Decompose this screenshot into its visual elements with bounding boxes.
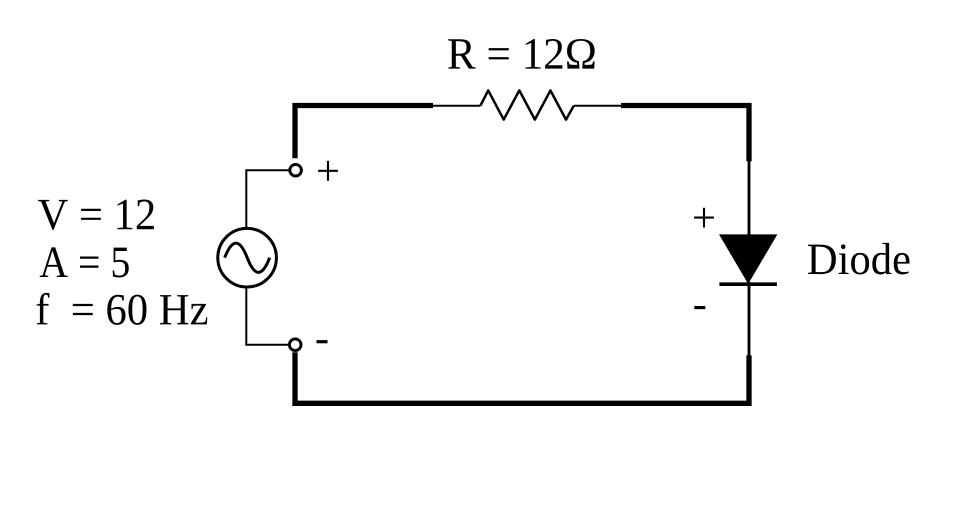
wire: diode top lead (thin)	[748, 160, 751, 236]
label: + (diode anode polarity)	[694, 208, 714, 228]
wire: top-right corner (thick, from resistor right to diode branch)	[621, 106, 749, 162]
label: f = 60 Hz (source frequency)	[37, 293, 208, 325]
label: - (source negative polarity)	[317, 340, 328, 343]
wire: source bottom lead (thin, from source down and right to - terminal)	[246, 287, 288, 345]
wire: resistor left lead (thin)	[432, 105, 480, 107]
label: V = 12 (source voltage)	[38, 200, 154, 230]
node: + terminal of source (open dot)	[290, 164, 302, 176]
label: - (diode cathode polarity)	[694, 306, 705, 309]
label: R = 12&#937; (resistor value)	[448, 39, 595, 69]
node: - terminal of source (open dot)	[289, 339, 301, 351]
wire: resistor right lead (thin)	[574, 105, 622, 107]
diode D1 (filled triangle anode + cathode bar)	[719, 236, 777, 285]
wire: diode bottom lead (thin)	[748, 282, 751, 356]
label: A = 5 (source current)	[40, 247, 129, 277]
ac source V1 (circle with sine wave)	[218, 228, 277, 287]
wire: bottom return (thick, - terminal down, right, and up to diode cathode)	[295, 352, 749, 403]
wire: source top lead (thin, from + terminal left and down to source)	[246, 170, 288, 229]
wire: top-left corner (thick, from + terminal up and right to resistor)	[295, 106, 433, 159]
label: Diode (component name)	[808, 243, 909, 275]
resistor R (zigzag body)	[480, 90, 573, 119]
label: + (source positive polarity)	[318, 161, 338, 181]
